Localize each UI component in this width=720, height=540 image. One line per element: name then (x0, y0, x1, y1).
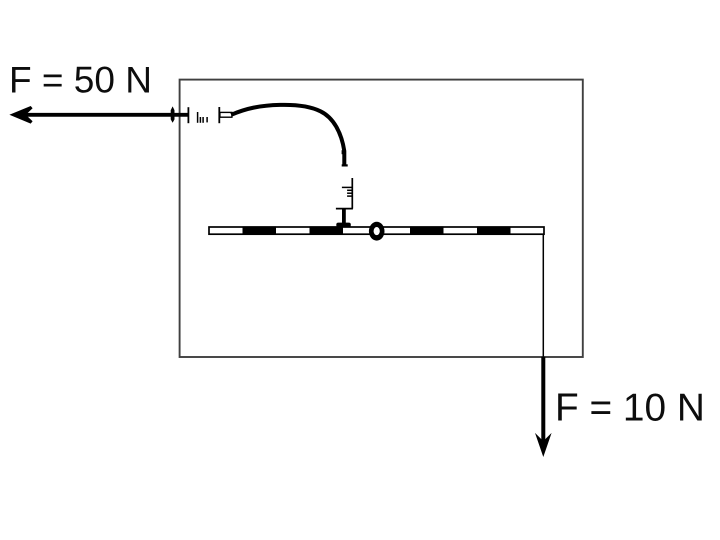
spring scale 1 pointer (171, 106, 175, 122)
ruler black segment 3 (410, 226, 444, 234)
ruler black segment 4 (477, 226, 511, 234)
spring scale 1 tick long (197, 112, 199, 123)
ruler black segment 2 (310, 226, 344, 234)
spring scale 2 bottom plate (336, 208, 353, 210)
svg-text:F = 10 N: F = 10 N (555, 386, 705, 429)
spring scale 1 tick short c (206, 117, 208, 122)
lever ruler band (209, 227, 544, 234)
spring scale 1 tick short b (202, 117, 204, 123)
spring scale 1 tick short a (199, 117, 201, 123)
force line down from lever end (542, 234, 544, 357)
spring scale 2 tick short a (347, 189, 352, 191)
force arrow F=50N head (9, 106, 32, 124)
spring scale 2 foot (336, 223, 351, 228)
experiment box frame (180, 80, 583, 357)
spring scale 2 tick long (342, 186, 352, 188)
pivot O inner hole (374, 227, 380, 235)
rope from hook to lower spring scale (231, 105, 344, 166)
spring scale 1 hook (220, 112, 232, 117)
spring scale 1 right plate (218, 107, 220, 123)
svg-text:F = 50 N: F = 50 N (9, 59, 152, 100)
rope pointer nub (342, 150, 344, 154)
rope end cap (342, 164, 348, 166)
spring scale 1 left plate (187, 107, 189, 123)
force arrow F=10N head (535, 433, 552, 457)
spring scale 2 tick short b (347, 192, 352, 194)
spring scale 2 tick short c (347, 195, 352, 197)
spring scale 2 hook shaft (342, 209, 346, 223)
pivot O outer ring (369, 222, 385, 241)
force arrow F=50N shaft (15, 113, 189, 117)
force arrow F=10N shaft (541, 357, 545, 449)
ruler black segment 1 (243, 226, 277, 234)
spring scale 2 body line (351, 178, 353, 209)
